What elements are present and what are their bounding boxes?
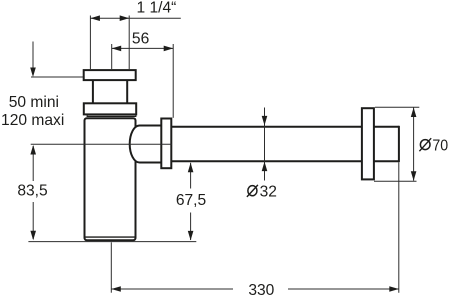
dimension 56 extension lines	[112, 44, 174, 118]
dimension 56 line and arrows	[112, 46, 174, 52]
svg-text:120 maxi: 120 maxi	[1, 112, 64, 129]
dimension 83,5 vertical line and arrows	[30, 145, 36, 240]
svg-text:330: 330	[248, 282, 274, 299]
svg-text:56: 56	[132, 31, 149, 48]
label Ø70	[419, 137, 448, 154]
transition cap (outlet nut)	[130, 126, 162, 163]
top flange F1	[84, 70, 136, 80]
dimension 330 extension lines	[111, 163, 399, 293]
label Ø32	[247, 184, 277, 201]
dimension Ø70 line and arrows	[411, 108, 417, 181]
dimension Ø32 line and arrows	[262, 108, 268, 181]
ring nut on pipe	[161, 119, 171, 169]
dimension Ø70 extension lines	[374, 107, 419, 181]
lower flange F2	[84, 103, 136, 114]
lock ring strip	[87, 115, 137, 116]
svg-text:83,5: 83,5	[17, 183, 48, 200]
svg-text:70: 70	[432, 137, 448, 154]
pipe end cap	[398, 126, 400, 162]
bottle body B1	[85, 118, 137, 240]
axis line	[31, 143, 172, 145]
leader arrow for 50/120	[30, 42, 83, 78]
dimension 1 1/4" extension lines	[90, 16, 129, 70]
inlet tube	[93, 81, 127, 103]
dimension 1 1/4" line and arrows	[90, 15, 180, 21]
svg-text:1 1/4“: 1 1/4“	[136, 0, 176, 16]
dimension 330 line and arrows	[111, 286, 399, 292]
svg-text:50 mini: 50 mini	[9, 94, 59, 111]
svg-text:32: 32	[260, 184, 277, 201]
bottom reference line	[28, 241, 196, 243]
label 50 mini / 120 maxi	[1, 94, 64, 129]
dimension 67,5 vertical line and arrows	[188, 163, 194, 241]
svg-text:67,5: 67,5	[176, 192, 207, 209]
horizontal pipe	[172, 127, 399, 161]
wall flange	[362, 108, 374, 179]
